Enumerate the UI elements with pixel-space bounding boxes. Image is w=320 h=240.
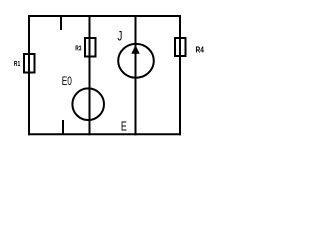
svg-text:E0: E0 [62, 74, 72, 88]
svg-text:R4: R4 [196, 45, 205, 55]
svg-text:R3: R3 [75, 44, 81, 53]
svg-text:J: J [117, 28, 122, 44]
svg-text:R1: R1 [14, 59, 20, 68]
svg-text:E: E [121, 120, 127, 134]
